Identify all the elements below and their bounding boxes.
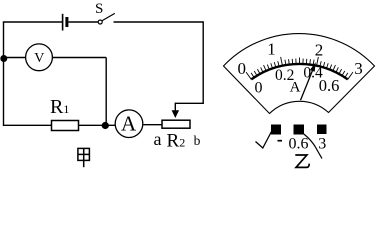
- svg-text:S: S: [95, 1, 103, 17]
- switch pivot circle: [98, 20, 102, 24]
- svg-text:0: 0: [255, 80, 263, 97]
- label jia: box: [78, 148, 90, 167]
- switch blade: [102, 13, 115, 20]
- wire right vertical down to slider level: [202, 21, 204, 103]
- svg-text:V: V: [34, 51, 44, 66]
- wire stub curve at 0.6 terminal: [304, 134, 322, 159]
- jia mid horizontal: [78, 153, 90, 155]
- svg-text:R2: R2: [167, 131, 186, 152]
- svg-text:0: 0: [238, 59, 247, 78]
- wire top from corner to battery: [3, 21, 62, 23]
- svg-text:0.6: 0.6: [289, 136, 309, 153]
- node dot on left wire: [0, 55, 7, 62]
- label minus dash: [278, 140, 283, 142]
- svg-text:0.6: 0.6: [319, 76, 340, 95]
- wire R1 to node: [79, 124, 106, 126]
- wire stub at minus terminal: [256, 131, 273, 149]
- jia mid vertical stem: [83, 148, 85, 167]
- meter body fan outline: [224, 34, 375, 114]
- wire switch to top-right corner: [114, 21, 204, 23]
- rheostat R2 box: [162, 120, 190, 128]
- wire ammeter to rheostat: [143, 124, 162, 126]
- terminal 1 (minus) square: [271, 125, 281, 135]
- svg-text:1: 1: [267, 40, 276, 59]
- resistor R1 box: [52, 121, 79, 131]
- wire left vertical: [3, 22, 5, 125]
- rheostat slider arrowhead: [172, 110, 180, 118]
- svg-text:2: 2: [315, 41, 324, 60]
- wire bottom left to R1: [3, 124, 52, 126]
- meter scale thick arc: [251, 64, 347, 79]
- svg-text:b: b: [194, 133, 201, 148]
- svg-text:A: A: [290, 80, 301, 96]
- wire node to voltmeter: [4, 57, 26, 59]
- meter needle: [301, 71, 313, 101]
- terminal 2 (0.6) square: [294, 125, 305, 135]
- wire horizontal to slider: [175, 102, 204, 104]
- meter tick marks: [246, 57, 353, 79]
- terminal 3 (3) square: [317, 125, 327, 135]
- wire battery to switch: [68, 21, 98, 23]
- label yi strokes: [295, 155, 309, 167]
- battery long plate: [62, 14, 64, 31]
- voltmeter V circle: [26, 44, 53, 71]
- node junction dot: [102, 122, 109, 129]
- svg-text:R1: R1: [50, 96, 69, 118]
- wire node to ammeter: [104, 124, 115, 126]
- wire voltmeter down to node: [105, 58, 107, 126]
- wire voltmeter right: [52, 57, 106, 59]
- svg-text:3: 3: [318, 136, 326, 153]
- meter needle arrowhead: [310, 62, 316, 72]
- rheostat slider stem: [174, 103, 176, 111]
- svg-text:A: A: [121, 112, 137, 136]
- svg-text:3: 3: [354, 59, 363, 78]
- battery short plate: [65, 17, 68, 27]
- ammeter A1 circle: [115, 110, 143, 138]
- svg-text:a: a: [154, 129, 162, 149]
